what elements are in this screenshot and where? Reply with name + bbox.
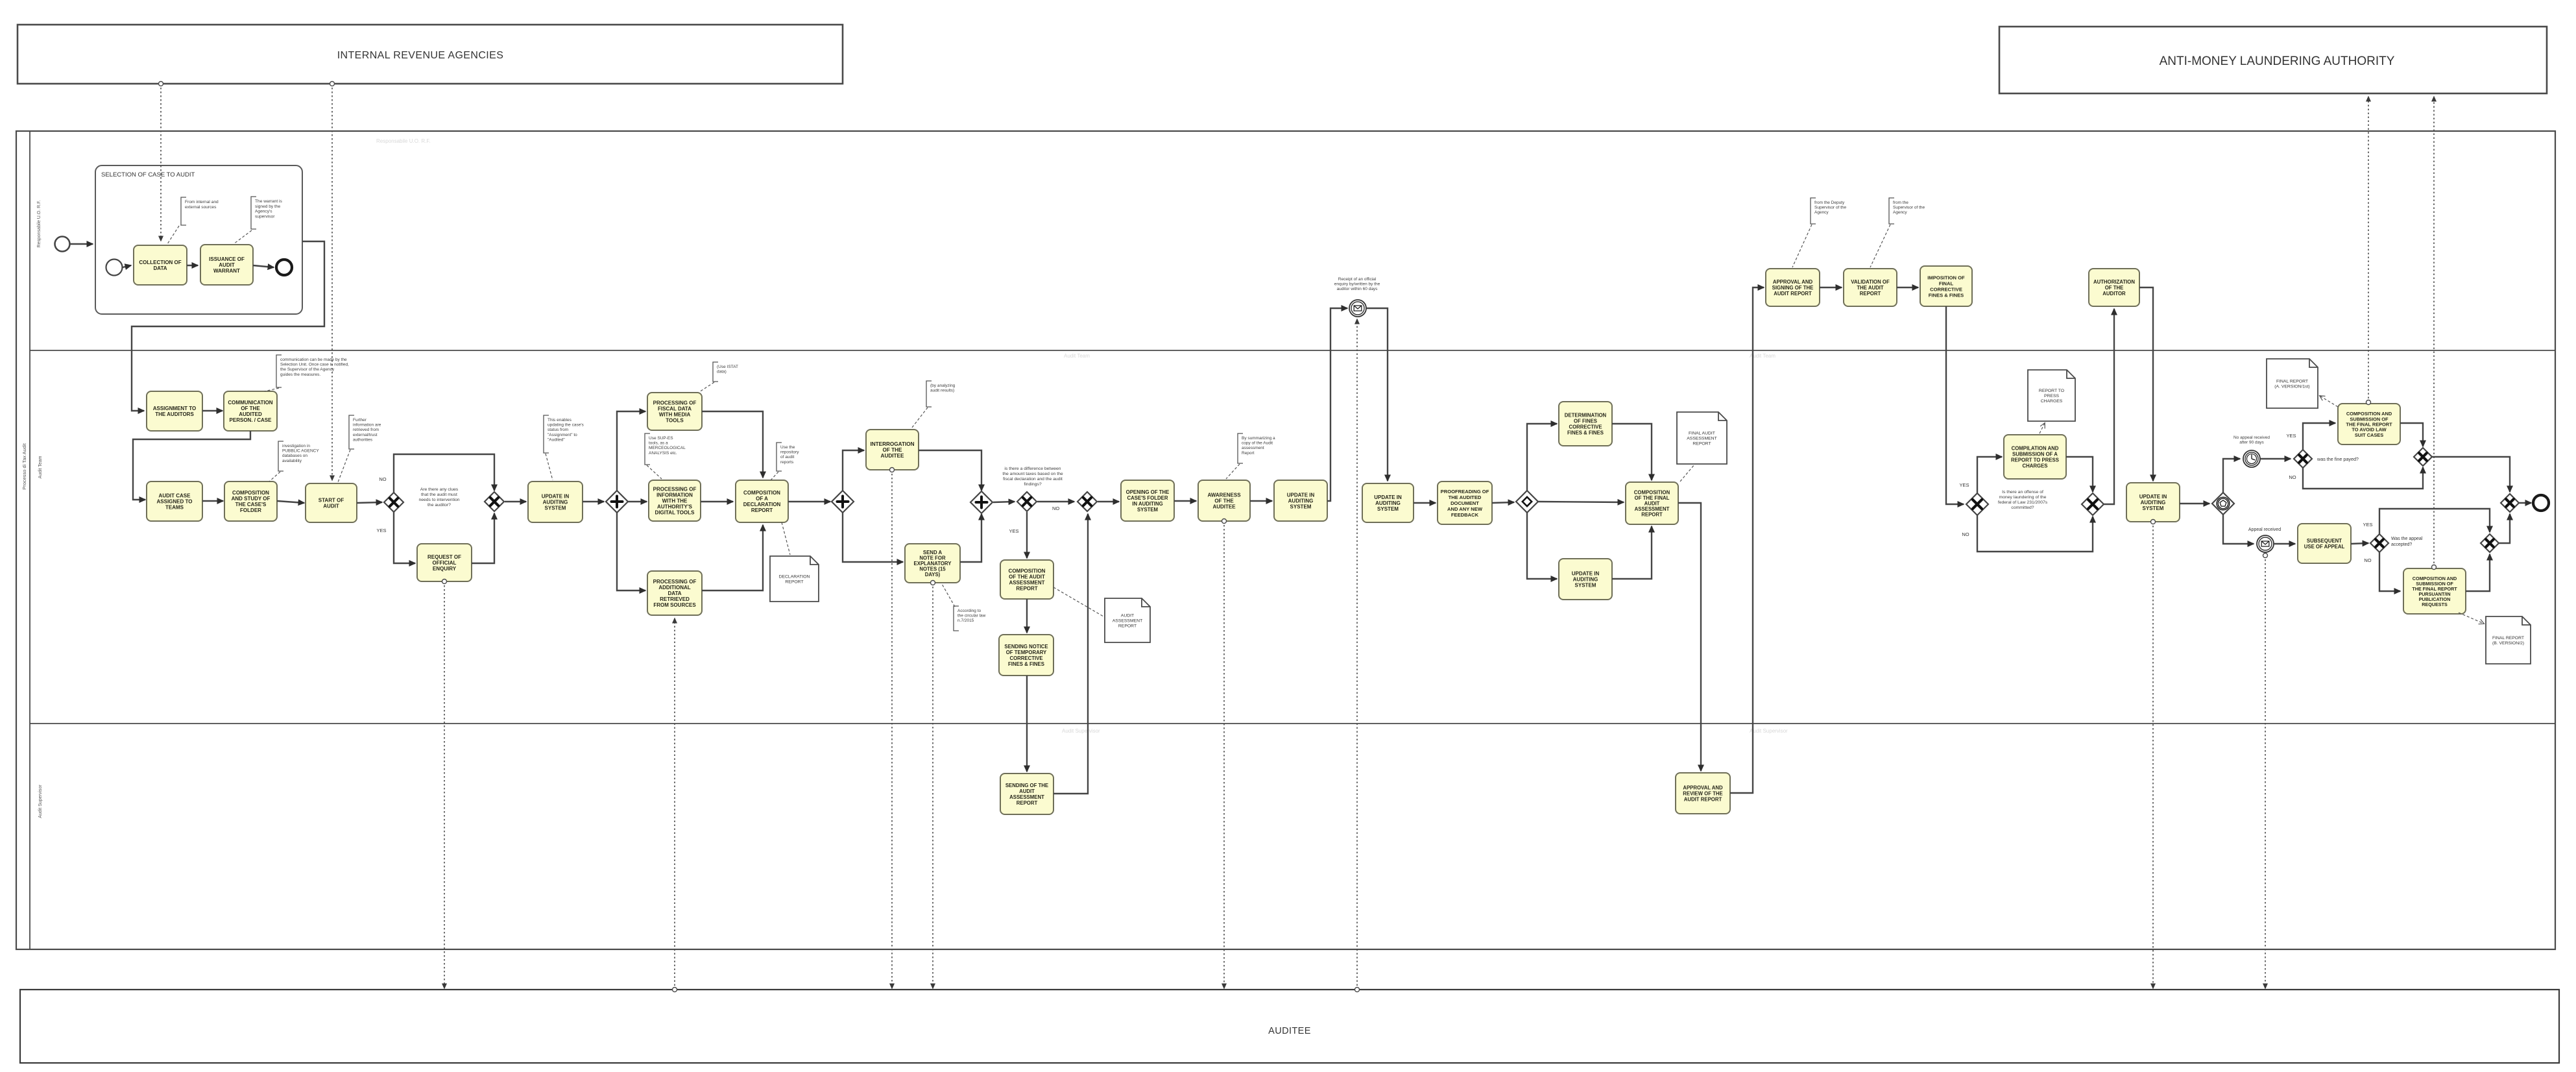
task: COMMUNICATION OF THE AUDIT — [224, 391, 277, 431]
svg-text:REPORT: REPORT — [1692, 441, 1711, 446]
wire: issuance to sub end — [253, 265, 274, 267]
svg-text:FINES & FINES: FINES & FINES — [1567, 430, 1604, 436]
svg-text:REQUESTS: REQUESTS — [2422, 602, 2448, 607]
wire: g14 no to final report B — [2379, 552, 2400, 591]
svg-text:No appeal received: No appeal received — [2233, 435, 2270, 440]
message flow: update4 to auditee — [2151, 520, 2156, 989]
svg-text:CORRECTIVE: CORRECTIVE — [1569, 424, 1602, 430]
faint lane label pg5 — [1750, 728, 1788, 734]
wire: final gw to end — [2519, 502, 2531, 504]
association: ann to ISSUANCE — [234, 230, 252, 244]
task: PROCESSING OF ADDITIONAL DATA — [647, 571, 702, 615]
association: ann to note request — [942, 584, 955, 607]
wire: g3 top to fiscal data — [617, 411, 645, 491]
svg-text:COMPOSITION: COMPOSITION — [1009, 568, 1046, 574]
wire: g9 no to g10 — [1977, 515, 2093, 552]
task: COMPOSITION OF THE AUDIT ASSESSMENT REPORT — [1000, 560, 1053, 599]
annotation: deputy supervisor note — [1811, 198, 1847, 224]
wire: g6 no to g7 — [1037, 501, 1074, 502]
svg-text:AUDIT: AUDIT — [219, 262, 235, 268]
task: COMPOSITION AND SUBMISSION OF THE FINAL REPORT (B) — [2403, 568, 2466, 614]
gateway (XOR): offense? — [1966, 493, 1988, 515]
task: PROCESSING OF FISCAL DATA — [647, 393, 702, 430]
svg-text:PROCESSING OF: PROCESSING OF — [653, 579, 697, 585]
svg-text:FINAL AUDIT: FINAL AUDIT — [1689, 432, 1715, 436]
svg-text:Agency: Agency — [1893, 210, 1907, 215]
task: DETERMINATION OF FINES — [1559, 402, 1612, 446]
svg-text:TOOLS: TOOLS — [666, 418, 684, 424]
svg-text:AUDITEE: AUDITEE — [1212, 504, 1236, 510]
svg-text:SUBSEQUENT: SUBSEQUENT — [2307, 538, 2342, 544]
event (end): sub-process end — [276, 260, 292, 275]
wire: audit case to composition — [202, 500, 223, 502]
gateway (XOR): merge clues — [485, 492, 504, 511]
message flow: enquiry to auditee — [442, 579, 447, 989]
data object: REPORT TO PRESS CHARGES — [2028, 370, 2075, 421]
task: PROOFREADING OF THE AUDITED DOCUMENT — [1438, 481, 1492, 524]
association: ann to validation — [1870, 225, 1890, 267]
svg-text:was the fine payed?: was the fine payed? — [2317, 456, 2359, 462]
svg-text:AUDITEE: AUDITEE — [1268, 1026, 1311, 1036]
wire: final report down to approval — [1678, 503, 1701, 771]
wire: final report B to g15 — [2466, 554, 2490, 591]
wire: update3 to final report — [1612, 526, 1652, 579]
wire: final report A to g13 — [2400, 423, 2423, 446]
svg-text:availability: availability — [282, 459, 302, 463]
gateway (XOR): merge appeal — [2481, 534, 2499, 552]
svg-text:Audit Supervisor: Audit Supervisor — [1750, 728, 1788, 734]
svg-text:tools, as a: tools, as a — [649, 441, 668, 446]
wire: g14 yes to g15 — [2379, 509, 2490, 534]
svg-text:REQUEST OF: REQUEST OF — [427, 554, 461, 560]
task: PROCESSING OF INFORMATION — [649, 480, 701, 521]
svg-text:FINAL REPORT: FINAL REPORT — [2492, 636, 2524, 640]
svg-text:REPORT: REPORT — [1641, 512, 1663, 518]
task: REQUEST OF OFFICIAL ENQUIRY — [417, 544, 472, 581]
lane label: Responsabile U.O. — [37, 200, 42, 247]
svg-text:ADDITIONAL: ADDITIONAL — [658, 585, 690, 591]
svg-text:OF A: OF A — [756, 496, 768, 502]
faint lane label pg1 — [376, 138, 431, 144]
svg-text:THE AUDIT: THE AUDIT — [1857, 285, 1884, 291]
task: APPROVAL AND SIGNING OF THE AUDIT REPORT — [1766, 269, 1820, 306]
task: SENDING NOTICE OF TEMPORARY FINES — [999, 635, 1053, 676]
event (timer): NO APPEAL AFTER 90 DAYS — [2243, 450, 2260, 467]
svg-text:SYSTEM: SYSTEM — [1137, 507, 1158, 513]
svg-text:TEAMS: TEAMS — [165, 505, 184, 511]
svg-text:OF THE: OF THE — [241, 406, 260, 411]
svg-text:retrieved from: retrieved from — [353, 428, 379, 432]
svg-text:Responsabile U.O. R.F.: Responsabile U.O. R.F. — [37, 200, 42, 247]
gateway (XOR): merge fine — [2414, 448, 2432, 466]
svg-text:WITH THE: WITH THE — [662, 498, 688, 504]
svg-text:AND STUDY OF: AND STUDY OF — [232, 496, 271, 502]
condition text: receipt note — [1334, 277, 1380, 291]
wire: start to sub-process — [70, 243, 93, 245]
task: UPDATE IN AUDITING SYSTEM (1) — [528, 481, 583, 522]
svg-text:START OF: START OF — [319, 498, 344, 504]
gateway (parallel): fork processing — [606, 491, 628, 513]
gateway (parallel): fork verification — [832, 491, 854, 513]
svg-text:Selection Unit. Once case is n: Selection Unit. Once case is notified, — [280, 363, 349, 367]
wire: g7 to opening folder — [1098, 501, 1119, 502]
event (message catch): RECEIPT OF OFFICIAL ENQUIRY — [1349, 300, 1366, 317]
svg-text:AUDITOR: AUDITOR — [2102, 291, 2126, 297]
wire: g8 mid to final report — [1538, 502, 1624, 502]
task: UPDATE IN AUDITING SYSTEM (3) — [1559, 559, 1612, 600]
svg-text:Use the: Use the — [780, 445, 795, 450]
svg-text:COMPILATION AND: COMPILATION AND — [2012, 446, 2059, 452]
wire: update to g3 — [583, 501, 604, 502]
svg-text:VALIDATION OF: VALIDATION OF — [1851, 279, 1890, 285]
svg-text:AUDITING: AUDITING — [1573, 577, 1598, 583]
svg-text:committed?: committed? — [2011, 506, 2034, 510]
svg-text:WITH MEDIA: WITH MEDIA — [659, 412, 691, 418]
svg-text:AUDITING: AUDITING — [1288, 498, 1314, 504]
svg-text:DATA: DATA — [668, 591, 681, 596]
wire: g3 bottom to additional — [617, 513, 645, 591]
wire: upload to proofreading — [1414, 502, 1436, 504]
svg-text:DAYS): DAYS) — [925, 572, 941, 578]
label: G6 no — [1052, 506, 1059, 511]
annotation: warrant signed by supervisor — [251, 197, 282, 229]
svg-text:AWARENESS: AWARENESS — [1207, 493, 1241, 498]
faint lane label pg4 — [1062, 728, 1100, 734]
svg-text:Are there any clues: Are there any clues — [420, 487, 459, 492]
svg-text:DECLARATION: DECLARATION — [779, 575, 810, 579]
message flow: appeal event to auditee — [2263, 554, 2268, 989]
label: G14 no — [2364, 557, 2371, 563]
svg-text:is there a difference between: is there a difference between — [1004, 467, 1061, 471]
lane divider 1/2 — [30, 350, 2555, 351]
svg-text:PRESS: PRESS — [2044, 394, 2060, 398]
svg-text:YES: YES — [1009, 528, 1018, 534]
svg-text:Audit Team: Audit Team — [1064, 353, 1090, 359]
svg-text:The warrant is: The warrant is — [255, 199, 282, 204]
svg-text:Audit Supervisor: Audit Supervisor — [38, 785, 43, 818]
gateway (XOR): merge offense — [2082, 493, 2104, 515]
svg-text:updating the case's: updating the case's — [548, 423, 584, 428]
svg-text:SYSTEM: SYSTEM — [545, 506, 566, 511]
svg-text:FEEDBACK: FEEDBACK — [1451, 512, 1479, 518]
svg-text:UPDATE IN: UPDATE IN — [1287, 493, 1315, 498]
svg-text:SYSTEM: SYSTEM — [1575, 583, 1596, 589]
gateway (XOR): clues? — [384, 493, 403, 512]
svg-text:federal of Law 231/2007s: federal of Law 231/2007s — [1998, 500, 2048, 505]
svg-text:Agency: Agency — [1814, 210, 1829, 215]
svg-text:signed by the: signed by the — [255, 204, 281, 209]
svg-text:needs to intervention: needs to intervention — [418, 498, 459, 502]
task: AUDIT CASE ASSIGNED TO TEAM — [147, 481, 202, 521]
svg-text:DECLARATION: DECLARATION — [743, 502, 781, 507]
task: OPENING OF THE CASE'S FOLDER — [1121, 480, 1174, 521]
svg-text:DETERMINATION: DETERMINATION — [1565, 413, 1607, 419]
svg-text:AUDITING: AUDITING — [543, 500, 568, 506]
svg-text:of audit: of audit — [780, 455, 795, 459]
message flow: final report A to AML authority — [2366, 97, 2371, 405]
svg-text:REPORT: REPORT — [1016, 586, 1037, 592]
svg-text:THE AUDITED: THE AUDITED — [1449, 494, 1482, 500]
svg-text:SUIT CASES: SUIT CASES — [2355, 432, 2383, 438]
wire: start of audit to g1 — [357, 502, 382, 503]
label: G12 yes — [2286, 433, 2296, 439]
svg-text:By summarizing a: By summarizing a — [1242, 436, 1275, 441]
svg-text:fiscal declaration and the aud: fiscal declaration and the audit — [1003, 477, 1063, 481]
wire: g12 no to g13 — [2303, 467, 2423, 489]
svg-text:RETRIEVED: RETRIEVED — [660, 596, 690, 602]
svg-text:AND ANY NEW: AND ANY NEW — [1447, 506, 1483, 512]
data object: FINAL REPORT A VERSION — [2267, 359, 2318, 408]
association: compilation to report doc — [2040, 423, 2045, 433]
svg-text:from the: from the — [1893, 201, 1908, 205]
task: AWARENESS OF THE AUDITEE — [1198, 480, 1250, 521]
association: ann to interrogation — [911, 408, 928, 428]
task: IMPOSITION OF FINAL CORRECTIVE MEASURES — [1920, 266, 1972, 306]
wire: fiscal to composition report — [702, 411, 763, 478]
pool: Processo di Tax Audit (main) — [16, 131, 2555, 949]
wire: imposition down to g9 — [1946, 306, 1964, 504]
svg-text:FISCAL DATA: FISCAL DATA — [658, 406, 692, 412]
svg-text:MERCEOLOGICAL: MERCEOLOGICAL — [649, 446, 686, 450]
svg-text:NO: NO — [379, 476, 386, 482]
svg-text:DATA: DATA — [153, 265, 167, 271]
pool: AUDITEE — [20, 990, 2559, 1063]
svg-text:REPORT: REPORT — [1860, 291, 1881, 297]
svg-text:From internal and: From internal and — [185, 200, 219, 204]
wire: audit report to sending notice — [1026, 599, 1028, 633]
svg-text:ENQUIRY: ENQUIRY — [433, 566, 457, 572]
svg-text:INFORMATION: INFORMATION — [656, 493, 693, 498]
svg-text:Receipt of an official: Receipt of an official — [1338, 277, 1377, 282]
task: SENDING OF THE AUDIT ASSESSMENT REPORT — [1000, 774, 1053, 814]
label: G6 yes — [1009, 528, 1018, 534]
pool: INTERNAL REVENUE AGENCIES — [18, 25, 843, 84]
svg-text:AUDIT: AUDIT — [323, 504, 339, 509]
svg-text:after 90 days: after 90 days — [2239, 441, 2264, 445]
svg-text:(A. VERSION/1st): (A. VERSION/1st) — [2274, 384, 2309, 389]
label: G1 yes — [376, 528, 386, 533]
pool: ANTI-MONEY LAUNDERING AUTHORITY — [1999, 27, 2547, 93]
label: fine payed q — [2317, 456, 2359, 462]
annotation: from internal and external sources — [181, 197, 219, 225]
svg-text:AUDIT: AUDIT — [1019, 788, 1035, 794]
message flow: auditee to additional data — [673, 618, 677, 992]
association: ann to signing — [1792, 225, 1812, 267]
svg-text:PERSON. / CASE: PERSON. / CASE — [230, 417, 272, 423]
svg-text:SENDING NOTICE: SENDING NOTICE — [1004, 644, 1048, 650]
svg-text:AUDIT: AUDIT — [1121, 614, 1134, 618]
wire: g6 yes to audit report — [1026, 512, 1028, 558]
wire: interrogation to g5 — [919, 450, 981, 491]
svg-text:SENDING OF THE: SENDING OF THE — [1005, 783, 1048, 788]
svg-text:AUDITING: AUDITING — [1375, 500, 1401, 506]
svg-text:APPROVAL AND: APPROVAL AND — [1683, 785, 1723, 791]
task: AUTHORIZATION OF THE AUDITOR — [2089, 269, 2139, 306]
svg-text:SYSTEM: SYSTEM — [1290, 504, 1312, 510]
message flow: final report B to AML authority — [2432, 97, 2437, 570]
svg-text:INTERROGATION: INTERROGATION — [870, 441, 914, 447]
wire: g1 bottom to enquiry — [394, 512, 415, 563]
label: appeal accepted q1 — [2391, 537, 2423, 541]
svg-text:UPDATE IN: UPDATE IN — [1572, 571, 1600, 577]
svg-text:the amount taxes based on the: the amount taxes based on the — [1002, 472, 1063, 476]
wire: sub start to collection — [123, 265, 131, 267]
svg-text:AUDIT REPORT: AUDIT REPORT — [1684, 797, 1722, 803]
svg-text:PROCESSING OF: PROCESSING OF — [653, 487, 697, 493]
svg-text:ANTI-MONEY LAUNDERING AUTHORIT: ANTI-MONEY LAUNDERING AUTHORITY — [2160, 55, 2395, 68]
svg-text:ASSESSMENT: ASSESSMENT — [1009, 580, 1044, 586]
label: G9 no — [1962, 531, 1969, 537]
label: G9 yes — [1959, 482, 1969, 488]
event (start): sub-process start — [106, 260, 123, 276]
svg-text:UPDATE IN: UPDATE IN — [1374, 494, 1402, 500]
svg-text:"Audited": "Audited" — [548, 437, 565, 442]
association: ann to update1 — [546, 454, 553, 480]
task: START OF AUDIT — [306, 483, 357, 522]
task: ASSIGNMENT TO THE AUDITORS — [147, 391, 202, 431]
wire: determination to final report — [1612, 424, 1652, 480]
label: G12 no — [2289, 474, 2296, 480]
annotation: supervisor note — [1889, 198, 1925, 224]
svg-text:CHARGES: CHARGES — [2023, 463, 2048, 469]
svg-text:Appeal received: Appeal received — [2248, 528, 2281, 532]
svg-text:external/trust: external/trust — [353, 433, 378, 437]
svg-text:Supervisor of the: Supervisor of the — [1814, 206, 1847, 210]
svg-text:AUTHORITY'S: AUTHORITY'S — [657, 504, 693, 510]
wire: receipt event to upload — [1366, 308, 1388, 481]
svg-text:(B. VERSION/2): (B. VERSION/2) — [2492, 641, 2524, 646]
wire: composition to start of audit — [277, 501, 304, 503]
data object: FINAL AUDIT ASSESSMENT REPORT — [1677, 412, 1727, 464]
association: audit report to doc — [1053, 587, 1103, 616]
gateway (inclusive): fork fines — [1516, 491, 1538, 513]
svg-text:OF FINES: OF FINES — [1574, 419, 1597, 424]
svg-text:AUTHORIZATION: AUTHORIZATION — [2093, 279, 2135, 285]
svg-text:FINES & FINES: FINES & FINES — [1008, 661, 1044, 667]
svg-text:FOLDER: FOLDER — [240, 507, 261, 513]
association: ann to fiscal data — [699, 382, 714, 392]
wire: g15 to final gw — [2499, 514, 2510, 543]
annotation: audit results note — [926, 381, 956, 407]
svg-text:Supervisor of the: Supervisor of the — [1893, 206, 1925, 210]
svg-text:ASSIGNMENT TO: ASSIGNMENT TO — [153, 406, 197, 411]
label: G14 yes — [2363, 522, 2372, 528]
svg-text:OFFICIAL: OFFICIAL — [433, 560, 457, 566]
svg-text:repository: repository — [780, 450, 799, 455]
svg-text:the Supervisor of the Agency: the Supervisor of the Agency — [280, 367, 335, 372]
task: VALIDATION OF THE AUDIT REPORT — [1844, 269, 1897, 306]
svg-text:ISSUANCE OF: ISSUANCE OF — [209, 256, 245, 262]
wire: g4 top to interrogation — [843, 450, 864, 491]
svg-text:According to: According to — [957, 609, 981, 613]
svg-text:YES: YES — [2363, 522, 2372, 528]
association: final report doc assoc — [1680, 465, 1694, 481]
annotation: use SUP-ES tools — [645, 433, 686, 465]
wire: signing to validation — [1820, 287, 1842, 288]
svg-text:NO: NO — [1962, 531, 1969, 537]
gateway (XOR): merge difference — [1077, 492, 1097, 511]
wire: g9 yes to compilation — [1977, 457, 2002, 493]
wire: sub-process to assignment — [132, 241, 324, 411]
svg-text:REPORT TO PRESS: REPORT TO PRESS — [2011, 457, 2059, 463]
wire: appeal msg to subsequent — [2274, 543, 2295, 544]
svg-text:findings?: findings? — [1024, 482, 1041, 487]
message flow: note request to auditee — [931, 581, 935, 989]
task: ISSUANCE OF AUDIT WARRANT — [200, 245, 253, 285]
svg-text:money laundering of the: money laundering of the — [1999, 495, 2047, 500]
svg-text:Responsabile U.O. R.F.: Responsabile U.O. R.F. — [376, 138, 431, 144]
svg-text:IN AUDITING: IN AUDITING — [1132, 501, 1162, 507]
wire: g2 to update system — [505, 501, 526, 502]
task: COMPOSITION AND STUDY OF THE CASE'S FOLDER — [224, 481, 277, 521]
svg-text:accepted?: accepted? — [2391, 542, 2412, 547]
task: APPROVAL AND REVIEW OF THE AUDIT REPORT — [1676, 773, 1730, 814]
svg-text:that the audit must: that the audit must — [421, 493, 457, 497]
svg-text:Further: Further — [353, 418, 367, 422]
svg-text:data): data) — [717, 370, 727, 374]
svg-text:ASSESSMENT: ASSESSMENT — [1113, 619, 1142, 624]
svg-text:Audit Team: Audit Team — [38, 456, 43, 478]
lane divider 2/3 — [30, 723, 2555, 724]
svg-text:Processo di Tax Audit: Processo di Tax Audit — [21, 443, 27, 489]
svg-text:Use SUP-ES: Use SUP-ES — [649, 436, 673, 441]
annotation: use ISTAT data — [713, 362, 738, 382]
data object: AUDIT ASSESSMENT REPORT — [1105, 598, 1150, 642]
task: UPDATE IN AUDITING SYSTEM (4) — [2126, 483, 2180, 522]
task: INTERROGATION OF THE AUDITEE — [866, 430, 919, 470]
label: appeal received — [2248, 528, 2281, 532]
wire: g1 top to g2 — [394, 454, 494, 493]
svg-text:SYSTEM: SYSTEM — [1377, 506, 1399, 512]
svg-text:FINAL REPORT: FINAL REPORT — [2276, 380, 2308, 384]
svg-text:YES: YES — [1959, 482, 1969, 488]
annotation: further information retrieved — [349, 415, 381, 449]
svg-text:Agency's: Agency's — [255, 210, 272, 214]
svg-text:supervisor: supervisor — [255, 214, 275, 219]
faint lane label pg2 — [1064, 353, 1090, 359]
annotation: communication note — [276, 355, 349, 387]
svg-text:SELECTION OF CASE TO AUDIT: SELECTION OF CASE TO AUDIT — [101, 171, 195, 178]
wire: event gw to appeal msg — [2223, 515, 2254, 544]
message flow: interrogation to auditee — [890, 468, 895, 989]
svg-text:communication can be made by t: communication can be made by the — [280, 358, 347, 362]
svg-text:the circular law: the circular law — [957, 614, 986, 618]
label: appeal accepted q2 — [2391, 542, 2412, 547]
svg-text:FINES & FINES: FINES & FINES — [1929, 293, 1964, 298]
svg-text:THE CASE'S: THE CASE'S — [235, 502, 267, 507]
svg-text:SIGNING OF THE: SIGNING OF THE — [1772, 285, 1814, 291]
svg-text:PROCESSING OF: PROCESSING OF — [653, 400, 697, 406]
svg-text:Audit Supervisor: Audit Supervisor — [1062, 728, 1100, 734]
wire: g3 mid to information — [628, 501, 647, 502]
svg-text:REPORT: REPORT — [785, 579, 803, 584]
svg-text:NO: NO — [1052, 506, 1059, 511]
svg-text:CASE'S FOLDER: CASE'S FOLDER — [1127, 495, 1168, 501]
svg-text:YES: YES — [2286, 433, 2296, 439]
gateway (XOR): appeal accepted? — [2370, 534, 2389, 552]
task: COMPOSITION AND SUBMISSION OF THE FINAL REPORT (A) — [2338, 404, 2400, 445]
svg-text:auditor within 60 days: auditor within 60 days — [1337, 287, 1378, 291]
svg-text:NO: NO — [2289, 474, 2296, 480]
svg-text:COLLECTION OF: COLLECTION OF — [139, 260, 181, 265]
svg-text:OF TEMPORARY: OF TEMPORARY — [1006, 650, 1047, 655]
task: COMPOSITION OF A DECLARATION REPORT — [736, 480, 788, 522]
data object: FINAL REPORT B VERSION — [2486, 616, 2531, 664]
wire: g8 top to determination — [1527, 424, 1557, 491]
task: COLLECTION OF DATA — [134, 245, 187, 285]
svg-text:OF THE AUDIT: OF THE AUDIT — [1009, 574, 1045, 580]
association: ann to COLLECTION — [167, 226, 179, 244]
